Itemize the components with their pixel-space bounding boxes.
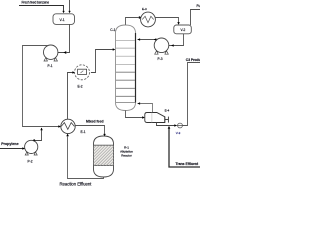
wire fresh feed benzene into V-1 [19, 6, 64, 12]
svg-text:Propylene: Propylene [1, 142, 18, 146]
svg-text:C3 Product: C3 Product [186, 58, 200, 62]
valve V-3 [178, 123, 183, 128]
node catalyst bed hatch [94, 145, 114, 165]
wire column overhead to E-3 [126, 16, 141, 25]
column C-1 [116, 25, 136, 111]
pump P-2 [25, 140, 38, 153]
wire V-1 bottom to P-1 [51, 24, 70, 53]
wire reaction effluent reactor bottom to E-1 [68, 136, 104, 178]
svg-text:V-2: V-2 [181, 28, 186, 32]
svg-text:E-3: E-3 [142, 7, 147, 11]
svg-text:E-1: E-1 [81, 130, 86, 134]
wire E-1 top to E-2 [68, 73, 74, 120]
wire P-1 discharge down left side to E-1 [23, 46, 59, 127]
condenser E-3 [141, 12, 156, 27]
wire reflux P-3 to column top [138, 39, 157, 41]
svg-text:Reactor: Reactor [121, 154, 132, 158]
svg-text:V-1: V-1 [60, 18, 65, 22]
heat-exchanger E-1 [61, 119, 75, 133]
svg-text:Mixed feed: Mixed feed [86, 119, 104, 123]
wire valve to C3 Prod exit [182, 63, 200, 126]
vessel V-1 [53, 14, 75, 25]
node tray lines [116, 40, 135, 64]
wire mixed feed E-1 to reactor R-1 [75, 126, 104, 135]
wire V-2 vapor to top right edge [191, 10, 201, 26]
heat-exchanger E-2 [75, 65, 90, 80]
reboiler E-4 [145, 113, 165, 123]
wire recycle into V-1 top [69, 0, 71, 12]
svg-text:Fresh feed benzene: Fresh feed benzene [22, 0, 50, 4]
svg-text:Fu: Fu [197, 4, 201, 8]
svg-text:Reaction Effluent: Reaction Effluent [60, 181, 93, 186]
svg-text:E-4: E-4 [165, 108, 170, 112]
wire V-2 bottom to P-3 [163, 34, 184, 46]
pump P-1 [44, 45, 58, 59]
wire E-4 vapor return to column [138, 104, 153, 113]
wire propylene feed into P-2 [0, 148, 31, 150]
svg-text:Trans Effluent: Trans Effluent [176, 162, 199, 166]
svg-text:P-3: P-3 [158, 57, 163, 61]
vessel V-2 [174, 25, 192, 34]
svg-text:C-1: C-1 [110, 28, 115, 32]
svg-text:P-2: P-2 [28, 160, 33, 164]
wire E-3 to V-2 [155, 18, 178, 23]
svg-text:P-1: P-1 [48, 64, 53, 68]
reactor R-1 [94, 136, 114, 145]
wire column bottoms to E-4 [126, 111, 144, 118]
pump P-3 [154, 38, 169, 53]
wire trans effluent branch [169, 128, 200, 168]
wire E-2 to column C-1 feed [91, 50, 114, 73]
svg-text:E-2: E-2 [78, 85, 83, 89]
wire P-2 discharge up to benzene line junction [34, 128, 42, 141]
svg-text:V-3: V-3 [176, 131, 181, 135]
wire E-4 bottoms through valve V-3 to C3 line [157, 123, 177, 126]
